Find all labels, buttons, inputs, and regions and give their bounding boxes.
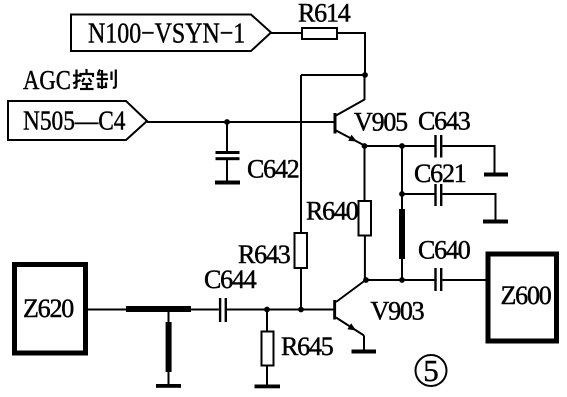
resistor R645 bbox=[262, 332, 274, 366]
svg-text:R645: R645 bbox=[281, 332, 333, 361]
wire C640 to Z600 bbox=[442, 279, 488, 281]
signal tag N100-VSYN-1 bbox=[71, 15, 271, 52]
ground (C621) bbox=[483, 220, 508, 224]
wire coil L1 to node G bbox=[401, 259, 403, 280]
node A junction dot bbox=[362, 72, 368, 78]
wire node E to coil L1 bbox=[401, 194, 403, 210]
signal tag N505-C4 bbox=[8, 101, 147, 140]
node C emitter junction dot bbox=[362, 143, 368, 149]
wire shield to coil L2 bbox=[168, 312, 170, 323]
svg-text:C644: C644 bbox=[204, 265, 257, 294]
wire R614 to corner down to node A bbox=[337, 33, 365, 75]
node F junction dot bbox=[363, 277, 369, 283]
wire V903 collector row bbox=[366, 279, 435, 281]
wire emitter node to R640 bbox=[364, 146, 366, 201]
svg-text:C642: C642 bbox=[247, 155, 299, 184]
ground (C643) bbox=[484, 173, 508, 177]
resistor R614 bbox=[302, 28, 337, 39]
transistor V903 bbox=[333, 281, 365, 336]
wire emitter node to C643 bbox=[365, 145, 435, 147]
coil L1 (thick bar) bbox=[399, 209, 405, 259]
capacitor C642 bbox=[216, 151, 240, 160]
svg-text:R614: R614 bbox=[298, 0, 351, 28]
wire C621 to ground bbox=[442, 194, 495, 220]
capacitor C640 bbox=[434, 268, 442, 291]
wire node E to C621 bbox=[402, 193, 435, 195]
coil L2 (thick bar) bbox=[166, 322, 172, 372]
wire node A to left bbox=[301, 74, 365, 76]
node G junction dot bbox=[399, 277, 405, 283]
svg-text:V903: V903 bbox=[371, 297, 424, 326]
wire C643 to ground bbox=[442, 146, 494, 173]
node D junction dot bbox=[399, 143, 405, 149]
shield bar (thick) on wire bbox=[126, 306, 191, 312]
svg-text:R640: R640 bbox=[306, 197, 359, 226]
node B junction dot bbox=[224, 119, 230, 125]
wire C642 to ground bbox=[226, 160, 228, 181]
wire node B to C642 bbox=[226, 122, 228, 151]
wire V903 emitter to ground bbox=[363, 336, 365, 351]
ground (shield) bbox=[156, 384, 181, 388]
svg-text:N100−VSYN−1: N100−VSYN−1 bbox=[88, 16, 245, 49]
svg-text:C640: C640 bbox=[418, 236, 471, 265]
transistor V905 bbox=[334, 100, 365, 146]
ground (R645) bbox=[255, 385, 281, 389]
resistor R643 bbox=[295, 233, 308, 268]
circled figure number 5 bbox=[416, 353, 447, 388]
wire node H to R645 bbox=[266, 310, 268, 332]
capacitor C644 bbox=[219, 298, 227, 322]
label AGC control (Chinese) bbox=[23, 66, 116, 95]
wire coil L2 to ground bbox=[168, 372, 170, 384]
svg-text:5: 5 bbox=[423, 353, 439, 388]
resistor R640 bbox=[359, 201, 372, 236]
svg-text:V905: V905 bbox=[354, 108, 407, 137]
block Z600 bbox=[488, 254, 557, 341]
svg-text:C643: C643 bbox=[418, 107, 470, 136]
wire C644 to V903 base bbox=[227, 309, 334, 311]
wire Z620 to C644 bbox=[86, 309, 219, 311]
ground (V903 emitter) bbox=[352, 350, 377, 354]
hanzi kong bbox=[73, 69, 94, 89]
wire tag2 to V905 base bbox=[147, 121, 334, 123]
wire R643 to bottom node bbox=[300, 268, 302, 310]
svg-text:C621: C621 bbox=[414, 159, 466, 188]
wire down to R643 bbox=[300, 75, 302, 233]
block Z620 bbox=[15, 265, 86, 354]
node H junction dot bbox=[264, 307, 270, 313]
svg-text:Z600: Z600 bbox=[501, 281, 552, 310]
node I junction dot bbox=[298, 307, 304, 313]
wire tag1 to R614 bbox=[271, 32, 302, 34]
wire R640 to node F bbox=[364, 236, 366, 281]
svg-text:Z620: Z620 bbox=[23, 294, 74, 323]
wire R645 to ground bbox=[266, 366, 268, 385]
node E junction dot bbox=[399, 191, 405, 197]
wire node D down to node E bbox=[401, 146, 403, 194]
svg-text:AGC: AGC bbox=[23, 66, 71, 95]
hanzi zhi bbox=[97, 70, 116, 90]
capacitor C621 bbox=[434, 184, 442, 206]
svg-text:N505—C4: N505—C4 bbox=[23, 107, 126, 136]
ground (C642) bbox=[215, 181, 240, 185]
capacitor C643 bbox=[434, 135, 442, 158]
wire V905 collector to node A bbox=[364, 75, 366, 100]
